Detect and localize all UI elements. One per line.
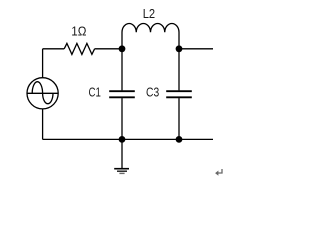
capacitor C3 leads [178,49,180,140]
wire resistor to node A [95,48,122,50]
node B junction dot [176,45,183,52]
voltage source midline [27,92,58,94]
svg-text:C3: C3 [146,85,159,100]
node A junction dot [119,45,126,52]
capacitor C1 plates [109,91,135,97]
resistor R (1 ohm) [64,43,94,54]
wire bottom rail [43,138,213,140]
wire left vertical source top [42,49,44,78]
svg-text:1Ω: 1Ω [71,24,86,39]
wire top-left from corner to resistor [43,48,65,50]
wire source bottom to rail [42,109,44,140]
inductor L2 [122,23,179,48]
ground bar 3 [119,172,124,174]
capacitor C1 leads [121,49,123,140]
voltage source V1 circle [27,78,58,109]
node D junction dot [176,136,183,143]
voltage source sine wave [32,82,53,104]
svg-text:L2: L2 [143,6,155,21]
svg-text:C1: C1 [89,85,101,100]
wire top-right rail [179,48,213,50]
ground stem [121,139,123,168]
node C junction dot [119,136,126,143]
paragraph return mark [218,169,222,173]
ground bar 1 [114,168,129,170]
capacitor C3 plates [166,91,192,97]
ground bar 2 [117,170,127,172]
